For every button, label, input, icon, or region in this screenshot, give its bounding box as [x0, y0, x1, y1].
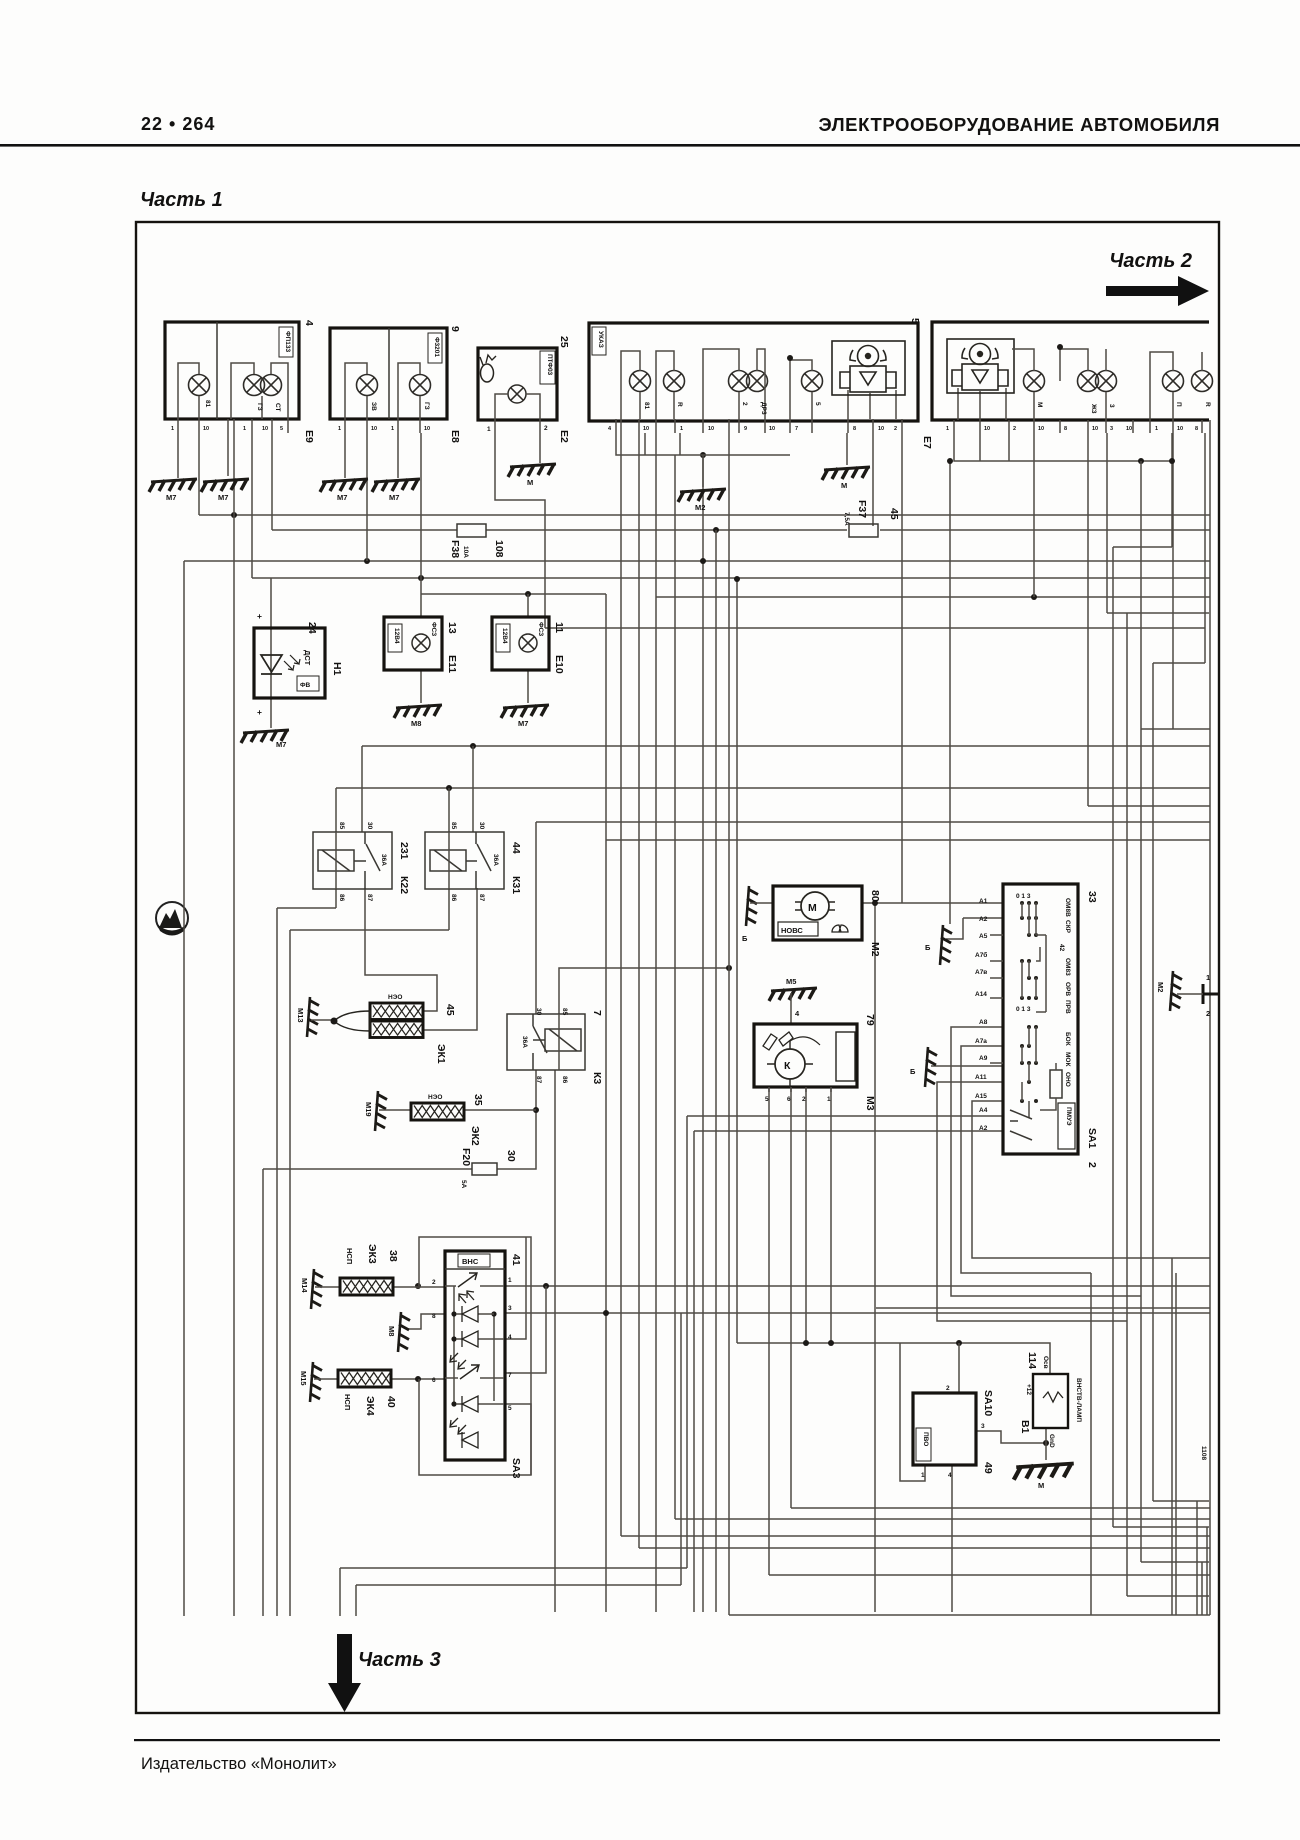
wire: v555 K3 pin86 long: [554, 1070, 556, 1612]
wire: E10 gnd drop: [527, 670, 529, 703]
svg-text:114: 114: [1026, 1352, 1038, 1369]
wire: v1088 lamp drop to h806: [1087, 433, 1089, 806]
svg-text:НСП: НСП: [345, 1248, 354, 1264]
svg-text:22 • 264: 22 • 264: [141, 114, 215, 134]
node junction at 494,1314: [491, 1311, 496, 1316]
svg-text:81: 81: [643, 402, 650, 410]
svg-text:10: 10: [424, 426, 430, 432]
svg-text:М: М: [1036, 402, 1043, 407]
svg-text:5: 5: [909, 318, 921, 324]
svg-text:М: М: [527, 478, 533, 487]
node v703 E7 loop: [700, 452, 706, 458]
wire: h1131 to box33: [694, 1130, 1003, 1132]
svg-text:3: 3: [1108, 404, 1115, 408]
svg-text:ЭК3: ЭК3: [366, 1244, 378, 1264]
svg-text:30: 30: [535, 1008, 542, 1016]
svg-text:А5: А5: [979, 933, 988, 940]
wire: EK3 to SA3: [393, 1286, 445, 1288]
node SA3 h1313: [603, 1310, 609, 1316]
wire: E11 gnd drop: [420, 670, 422, 703]
washer motor M2: [773, 886, 881, 957]
node h594 E10 tap: [525, 591, 531, 597]
svg-text:ПРВ: ПРВ: [1064, 1000, 1071, 1014]
svg-text:ОМ8В: ОМ8В: [1064, 898, 1071, 917]
svg-text:НСП: НСП: [343, 1394, 352, 1410]
svg-text:НЭО: НЭО: [388, 994, 402, 1001]
svg-text:0 1 3: 0 1 3: [1016, 893, 1031, 900]
fuse F37: [843, 500, 900, 537]
svg-text:7,5А: 7,5А: [843, 512, 850, 526]
ground M2 right column: [1170, 971, 1182, 1011]
wire: v1107 lamp drop to h613: [1106, 433, 1108, 613]
node junction at 454,1339: [451, 1336, 456, 1341]
svg-text:2: 2: [946, 1385, 950, 1392]
svg-text:ЭЛЕКТРООБОРУДОВАНИЕ АВТОМОБИЛЯ: ЭЛЕКТРООБОРУДОВАНИЕ АВТОМОБИЛЯ: [819, 114, 1220, 135]
svg-text:30: 30: [366, 822, 373, 830]
svg-text:9: 9: [744, 426, 747, 432]
wire: v1172 lower drop: [1171, 1258, 1173, 1615]
wire: h1536 bus: [621, 1535, 1210, 1537]
wire: h1568 to part3: [340, 1567, 687, 1569]
wire: h561 bus: [184, 560, 1210, 562]
svg-text:87: 87: [366, 894, 373, 902]
svg-text:4: 4: [795, 1009, 800, 1018]
wire: SA3 right pin1 bus: [505, 1285, 1210, 1287]
wire: v729 long: [728, 433, 730, 1615]
node on h530: [713, 527, 719, 533]
svg-text:33: 33: [1086, 891, 1098, 903]
svg-text:3: 3: [1110, 426, 1113, 432]
svg-text:79: 79: [864, 1014, 876, 1026]
switch unit SA3: [432, 1251, 522, 1479]
node B1 bottom: [1043, 1440, 1049, 1446]
wire: h729 right: [1141, 728, 1210, 730]
wire: v694 staircase: [693, 1131, 695, 1612]
ground M13 at EK1: [307, 997, 319, 1037]
wire: h1527 right: [1113, 1526, 1209, 1528]
wire: v621 long: [620, 433, 622, 1536]
svg-text:Е8: Е8: [449, 430, 461, 443]
svg-text:Е10: Е10: [553, 655, 565, 674]
node junction at 790,358: [787, 355, 793, 361]
wire: h1308 bus: [876, 1307, 1210, 1309]
wire: v367 E8 pin to h561: [366, 433, 368, 561]
svg-text:4: 4: [508, 1334, 512, 1341]
node junction at 454,1404: [451, 1401, 456, 1406]
schematic outer border: [136, 222, 1219, 1713]
node v703 h561: [700, 558, 706, 564]
wire: ground M9 jog to box33: [946, 918, 1003, 939]
svg-text:24: 24: [306, 622, 318, 634]
wire: v606 long: [605, 594, 607, 1612]
svg-text:36А: 36А: [492, 854, 499, 866]
svg-text:1: 1: [243, 426, 246, 432]
svg-text:30: 30: [478, 822, 485, 830]
wire: v1127 right column: [1126, 613, 1128, 1596]
wire: v1091 bottom right: [1090, 1273, 1092, 1615]
svg-text:ЭК1: ЭК1: [435, 1044, 447, 1064]
svg-text:25: 25: [558, 336, 570, 348]
svg-text:+: +: [257, 707, 262, 717]
wire: v290 long: [289, 930, 291, 1616]
svg-text:ПТФ03: ПТФ03: [546, 354, 553, 376]
wire: SA1 pin A15 loop: [972, 1101, 1210, 1258]
svg-text:ДР3: ДР3: [760, 402, 767, 415]
svg-text:1: 1: [680, 426, 683, 432]
wire: v675 long: [674, 455, 676, 1519]
svg-text:10: 10: [371, 426, 377, 432]
wire: h908 K22 pin86: [277, 907, 336, 909]
svg-text:81: 81: [204, 400, 211, 408]
svg-text:86: 86: [338, 894, 345, 902]
svg-text:А7а: А7а: [975, 1038, 987, 1045]
svg-text:7: 7: [591, 1010, 603, 1016]
svg-text:SA3: SA3: [510, 1458, 522, 1479]
wire: E7 ground loop: [616, 433, 790, 455]
svg-text:4: 4: [608, 426, 612, 432]
wire: box2 pump loop: [954, 433, 1172, 461]
ground M7 c: [320, 479, 368, 492]
svg-text:87: 87: [478, 894, 485, 902]
node EK4 out: [415, 1376, 421, 1382]
svg-text:41: 41: [510, 1254, 522, 1266]
wire: h1548 bus: [639, 1547, 1210, 1549]
svg-text:Ж3: Ж3: [1090, 403, 1097, 414]
ground M8 at SA3: [398, 1312, 410, 1352]
svg-text:36А: 36А: [521, 1036, 528, 1048]
svg-text:2: 2: [544, 425, 548, 432]
indicator H1: [254, 611, 343, 717]
svg-text:R: R: [1204, 402, 1211, 407]
svg-text:10: 10: [1038, 426, 1044, 432]
wire: v1202 drop: [1201, 1562, 1203, 1615]
wire: h515 bus: [199, 514, 1210, 516]
wire: v263 from F20 line: [262, 1169, 264, 1616]
wire: h594 E11-E10 link: [421, 593, 606, 595]
svg-text:6: 6: [787, 1096, 791, 1103]
node h597 right tap: [1031, 594, 1037, 600]
wire: ground M8b jog to SA3: [406, 1314, 445, 1329]
wire: E9 gnd drops: [178, 433, 228, 478]
svg-text:УКАЗ: УКАЗ: [597, 331, 604, 348]
svg-text:5А: 5А: [460, 1180, 467, 1189]
wire: h1501 right: [1153, 1500, 1209, 1502]
wire: h903 M2 to box33: [862, 902, 1003, 904]
fog lamp E2: [478, 336, 570, 443]
relay K31: [425, 822, 522, 902]
node junction at 454,1314: [451, 1311, 456, 1316]
svg-text:ЗВ: ЗВ: [370, 402, 377, 411]
svg-text:А7в: А7в: [975, 969, 987, 976]
heater EK4: [338, 1370, 397, 1416]
node SA3 h1286 left: [415, 1283, 421, 1289]
wire: SA10 pin3 to B1 bottom: [976, 1431, 1046, 1443]
svg-text:10: 10: [708, 426, 714, 432]
wire: h1343 SA10 feed: [737, 1343, 1050, 1374]
svg-text:М7: М7: [337, 493, 347, 502]
svg-text:10А: 10А: [462, 546, 469, 558]
svg-text:2: 2: [1013, 426, 1016, 432]
svg-text:К: К: [784, 1060, 791, 1072]
svg-text:108: 108: [493, 540, 505, 558]
svg-text:М: М: [1038, 1481, 1044, 1490]
svg-text:ЭК4: ЭК4: [364, 1396, 376, 1416]
wire: v1172 drop: [1171, 433, 1173, 547]
svg-text:80: 80: [869, 890, 881, 902]
wire: K31 pin87 to EK1 row2: [424, 888, 477, 1030]
wire: v875 long: [874, 905, 876, 1612]
wire: v1113 right column: [1112, 547, 1114, 1527]
node h788 K31 tap: [446, 785, 452, 791]
ground M8 under E11: [394, 705, 442, 718]
svg-text:Б: Б: [910, 1067, 916, 1076]
wire: v639 long: [638, 433, 640, 1548]
svg-text:231: 231: [398, 842, 410, 860]
wire: v1205 lamp drop to h663: [1204, 433, 1206, 663]
svg-text:11: 11: [553, 622, 565, 633]
svg-text:F37: F37: [856, 500, 868, 518]
svg-text:+12: +12: [1025, 1384, 1032, 1395]
wire: v959 SA10 pin2: [958, 1343, 960, 1393]
sensor B1: [1019, 1352, 1207, 1460]
svg-text:7: 7: [508, 1372, 512, 1379]
fuse F20: [460, 1148, 517, 1189]
svg-text:Е9: Е9: [303, 430, 315, 443]
svg-text:Часть 1: Часть 1: [140, 189, 223, 211]
svg-text:А11: А11: [975, 1074, 987, 1081]
svg-text:Ф3201: Ф3201: [433, 337, 440, 357]
svg-text:БОК: БОК: [1064, 1032, 1071, 1046]
svg-text:К3: К3: [591, 1072, 603, 1084]
svg-text:А15: А15: [975, 1093, 987, 1100]
svg-text:F38: F38: [449, 540, 461, 558]
wire: h822 bus: [536, 821, 1210, 823]
svg-text:ОРВ: ОРВ: [1064, 982, 1071, 996]
wire: h613 right: [1107, 612, 1209, 614]
node junction at 950,461: [947, 458, 953, 464]
svg-text:GnD: GnD: [1048, 1434, 1055, 1448]
svg-text:Е7: Е7: [921, 436, 933, 449]
node h461: [1138, 458, 1144, 464]
svg-text:R: R: [676, 402, 683, 407]
svg-text:М14: М14: [300, 1278, 309, 1293]
ground M7 under H1: [241, 730, 289, 743]
svg-text:85: 85: [561, 1008, 568, 1016]
ground M15 at EK4: [310, 1362, 322, 1402]
wire: SA1 pin A11 loop: [937, 1082, 1127, 1321]
antenna tap at right border: [1203, 984, 1219, 1004]
node junction at 806,1343: [803, 1340, 809, 1346]
svg-text:38: 38: [387, 1250, 399, 1262]
wire: h1615 bus: [729, 1614, 1210, 1616]
svg-text:1: 1: [1155, 426, 1158, 432]
lamp E10: [492, 617, 565, 674]
monolit logo: [156, 902, 188, 936]
wire: H1 feed: [270, 578, 272, 728]
wire: v449 K31 pin86 drop: [448, 888, 450, 930]
svg-text:86: 86: [561, 1076, 568, 1084]
svg-text:НОВС: НОВС: [781, 926, 803, 935]
svg-text:+: +: [257, 611, 262, 621]
lamp cluster E7: [589, 318, 933, 449]
svg-text:1: 1: [1206, 973, 1210, 982]
svg-text:42: 42: [1058, 944, 1065, 952]
svg-text:ФВ: ФВ: [300, 682, 311, 689]
svg-text:К31: К31: [510, 876, 522, 894]
wire: v1210 inner right rail: [1209, 420, 1211, 1615]
svg-text:ОНО: ОНО: [1064, 1072, 1071, 1087]
svg-text:А2: А2: [979, 1125, 988, 1132]
node junction at 334,1021: [331, 1018, 338, 1025]
wire: v336 K22 pin86 drop: [335, 888, 337, 908]
ground M7 a: [149, 479, 197, 492]
svg-text:10: 10: [1177, 426, 1183, 432]
ground M14 at EK3: [311, 1269, 323, 1309]
svg-text:ГЗ: ГЗ: [423, 402, 430, 410]
svg-text:М: М: [841, 481, 847, 490]
svg-text:ВНС: ВНС: [462, 1257, 479, 1266]
node h968: [726, 965, 732, 971]
ground B at box33 mid: [925, 1047, 937, 1087]
svg-text:Б: Б: [925, 943, 931, 952]
svg-text:2: 2: [1206, 1009, 1210, 1018]
node junction at 1060,347: [1057, 344, 1063, 350]
svg-text:5: 5: [280, 426, 283, 432]
svg-text:1: 1: [338, 426, 341, 432]
node junction at 831,1343: [828, 1340, 834, 1346]
wire: v473 K31 pin30: [472, 746, 474, 832]
wire: E8 gnd drops: [345, 433, 398, 478]
svg-text:1: 1: [487, 426, 491, 433]
svg-text:85: 85: [450, 822, 457, 830]
svg-text:8: 8: [1064, 426, 1067, 432]
svg-text:8: 8: [432, 1313, 436, 1320]
wire: M3 pin5 drop: [768, 1087, 770, 1575]
ground B at box33 top: [940, 925, 952, 965]
wire: v703 long: [702, 455, 704, 1612]
svg-text:10: 10: [203, 426, 209, 432]
svg-text:12В4: 12В4: [393, 628, 400, 644]
wire: v362 K22 pin30: [361, 746, 363, 832]
wire: h930 K31 pin86: [290, 929, 449, 931]
wire: v687 staircase: [686, 1116, 688, 1568]
svg-text:5: 5: [814, 402, 821, 406]
wire: v681 staircase: [680, 1313, 682, 1585]
node v737 top: [734, 576, 740, 582]
wire: v277 from h908: [276, 908, 278, 1616]
svg-text:1: 1: [171, 426, 174, 432]
svg-text:ВНСТВ-ЛАМП: ВНСТВ-ЛАМП: [1075, 1378, 1082, 1422]
svg-text:ПМУЭ: ПМУЭ: [1065, 1107, 1072, 1126]
svg-text:30: 30: [505, 1150, 517, 1162]
wire: v737 long: [736, 579, 738, 1343]
ground M2 under E7: [678, 489, 726, 502]
ground M19 at EK2: [375, 1091, 387, 1131]
svg-text:ДСТ: ДСТ: [303, 650, 312, 666]
svg-text:10: 10: [984, 426, 990, 432]
svg-text:45: 45: [888, 508, 900, 520]
wire: v1207 drop: [1206, 1527, 1208, 1615]
svg-text:М15: М15: [299, 1371, 308, 1386]
svg-text:10: 10: [1126, 426, 1132, 432]
svg-text:Издательство «Монолит»: Издательство «Монолит»: [141, 1755, 337, 1773]
svg-text:1: 1: [946, 426, 949, 432]
svg-text:СКР: СКР: [1064, 920, 1071, 934]
wire: h597 bus: [656, 596, 1210, 598]
wire: h547 right: [1113, 546, 1172, 548]
ground M1 under E2: [508, 464, 556, 477]
svg-text:10: 10: [1092, 426, 1098, 432]
wire: v1197 drop: [1196, 1501, 1198, 1615]
wire: h1519 bus: [675, 1518, 1210, 1520]
wire: B1 bottom to ground: [1045, 1428, 1047, 1460]
wire: v449 K31 pin85: [448, 788, 450, 832]
ground M7 under E10: [501, 705, 549, 718]
part3 label and arrow: [328, 1634, 441, 1712]
svg-text:ФП133: ФП133: [284, 331, 291, 352]
wire: h746 relay bus: [362, 745, 1210, 747]
svg-text:Часть 2: Часть 2: [1109, 250, 1192, 272]
svg-text:1108: 1108: [1200, 1446, 1207, 1460]
svg-text:М5: М5: [786, 977, 796, 986]
wire: h806 right: [1088, 805, 1210, 807]
svg-text:Е2: Е2: [558, 430, 570, 443]
wire: v1141 right column: [1140, 461, 1142, 1562]
wire: v902 long right: [901, 433, 903, 903]
svg-text:2: 2: [802, 1096, 806, 1103]
wire: v184 long: [183, 561, 185, 1616]
wire: h628 bus: [545, 627, 1205, 629]
node SA3 h1286 K3 tap: [543, 1283, 549, 1289]
svg-text:6: 6: [432, 1377, 436, 1384]
svg-text:М2: М2: [869, 942, 881, 957]
svg-text:SA10: SA10: [982, 1390, 994, 1416]
wire: v952 SA10 pin4 drop: [951, 1465, 953, 1612]
svg-text:ПВО: ПВО: [922, 1432, 929, 1446]
wire: h578 bus: [252, 577, 1210, 579]
svg-text:М8: М8: [411, 719, 421, 728]
svg-text:5: 5: [765, 1096, 769, 1103]
svg-text:В1: В1: [1019, 1420, 1031, 1434]
svg-text:М7: М7: [276, 740, 286, 749]
svg-text:1: 1: [921, 1472, 925, 1479]
svg-text:10: 10: [643, 426, 649, 432]
wire: v536 to K3 pin30: [535, 822, 537, 1014]
svg-text:87: 87: [535, 1076, 542, 1084]
svg-text:А8: А8: [979, 1019, 988, 1026]
svg-text:А2: А2: [979, 916, 988, 923]
svg-text:49: 49: [982, 1462, 994, 1474]
wire: h1562 right: [1141, 1561, 1209, 1563]
svg-text:М7: М7: [218, 493, 228, 502]
wire: h1596 right: [1127, 1595, 1209, 1597]
svg-text:М13: М13: [296, 1008, 305, 1023]
ground M6 at M2 motor: [746, 886, 758, 926]
svg-text:М2: М2: [695, 503, 705, 512]
heater EK2: [411, 1094, 484, 1146]
svg-text:8: 8: [853, 426, 856, 432]
wire: SA3 enclosure loop: [419, 1237, 531, 1475]
svg-text:М8: М8: [387, 1326, 396, 1336]
svg-text:СТ: СТ: [274, 403, 281, 412]
switch SA10: [913, 1385, 994, 1479]
svg-text:Часть 3: Часть 3: [358, 1649, 441, 1671]
svg-text:44: 44: [510, 842, 522, 854]
ground M near F37: [822, 467, 870, 480]
svg-text:А7б: А7б: [975, 951, 987, 959]
wire: v1153 right column: [1152, 663, 1154, 1501]
wire: v234 long: [233, 433, 235, 1616]
